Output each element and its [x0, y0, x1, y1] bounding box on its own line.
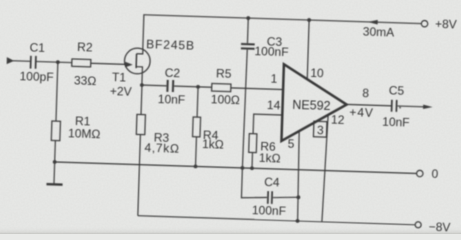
svg-text:C4: C4: [264, 175, 280, 189]
svg-text:−8V: −8V: [428, 220, 450, 234]
svg-text:R2: R2: [77, 40, 93, 54]
svg-text:BF245B: BF245B: [146, 37, 195, 53]
svg-text:4,7kΩ: 4,7kΩ: [144, 141, 180, 156]
svg-text:+2V: +2V: [110, 84, 132, 99]
svg-text:R5: R5: [216, 66, 232, 80]
svg-text:C2: C2: [165, 66, 181, 80]
svg-text:10: 10: [310, 66, 324, 80]
svg-text:14: 14: [267, 98, 281, 112]
svg-text:+4V: +4V: [349, 105, 374, 120]
svg-text:C5: C5: [389, 83, 405, 97]
svg-text:3: 3: [317, 123, 324, 137]
svg-text:33Ω: 33Ω: [74, 73, 97, 88]
svg-text:C1: C1: [29, 41, 45, 55]
svg-text:100nF: 100nF: [252, 203, 286, 218]
svg-text:5: 5: [288, 137, 295, 151]
svg-text:NE592: NE592: [292, 98, 331, 113]
svg-text:1kΩ: 1kΩ: [259, 151, 281, 166]
svg-text:100pF: 100pF: [19, 69, 53, 84]
svg-text:1: 1: [270, 72, 277, 86]
svg-text:0: 0: [431, 167, 438, 181]
svg-text:100nF: 100nF: [254, 44, 288, 59]
svg-text:30mA: 30mA: [363, 25, 395, 40]
svg-text:12: 12: [331, 113, 345, 127]
svg-text:10MΩ: 10MΩ: [68, 126, 101, 141]
svg-text:10nF: 10nF: [382, 115, 410, 130]
svg-text:T1: T1: [112, 70, 127, 84]
svg-text:10nF: 10nF: [158, 92, 186, 107]
svg-text:8: 8: [362, 86, 369, 100]
svg-text:100Ω: 100Ω: [211, 92, 240, 107]
svg-text:1kΩ: 1kΩ: [202, 137, 224, 152]
svg-text:+8V: +8V: [435, 17, 457, 32]
